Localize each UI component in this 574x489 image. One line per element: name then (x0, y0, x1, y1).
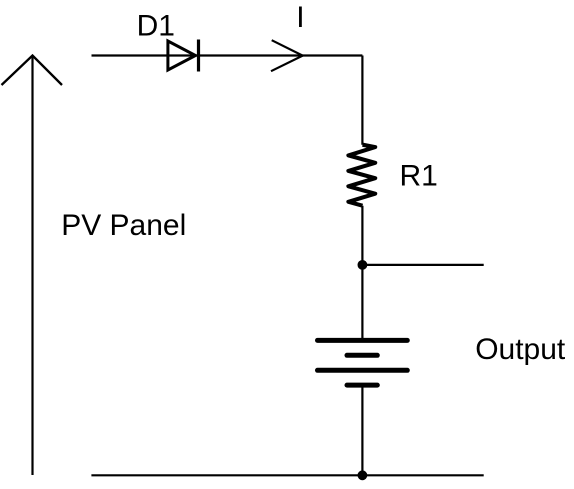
resistor R1 (348, 145, 375, 206)
svg-text:D1: D1 (137, 10, 175, 43)
wire resistor to battery (361, 206, 363, 341)
svg-text:Output: Output (475, 333, 566, 366)
wire right branch upper (361, 56, 363, 145)
wire middle horizontal (362, 264, 483, 266)
wire battery to bottom node (361, 385, 363, 475)
wire top (92, 54, 363, 56)
svg-text:PV Panel: PV Panel (61, 209, 186, 242)
node junction dot bottom (358, 470, 368, 480)
svg-text:I: I (296, 1, 304, 34)
battery B1 (318, 340, 408, 385)
current arrow I (271, 40, 303, 71)
diode D1 (168, 40, 199, 72)
wire bottom (91, 474, 483, 476)
node junction dot upper (358, 260, 368, 270)
PV panel source arrow (2, 56, 63, 476)
svg-text:R1: R1 (400, 159, 438, 192)
